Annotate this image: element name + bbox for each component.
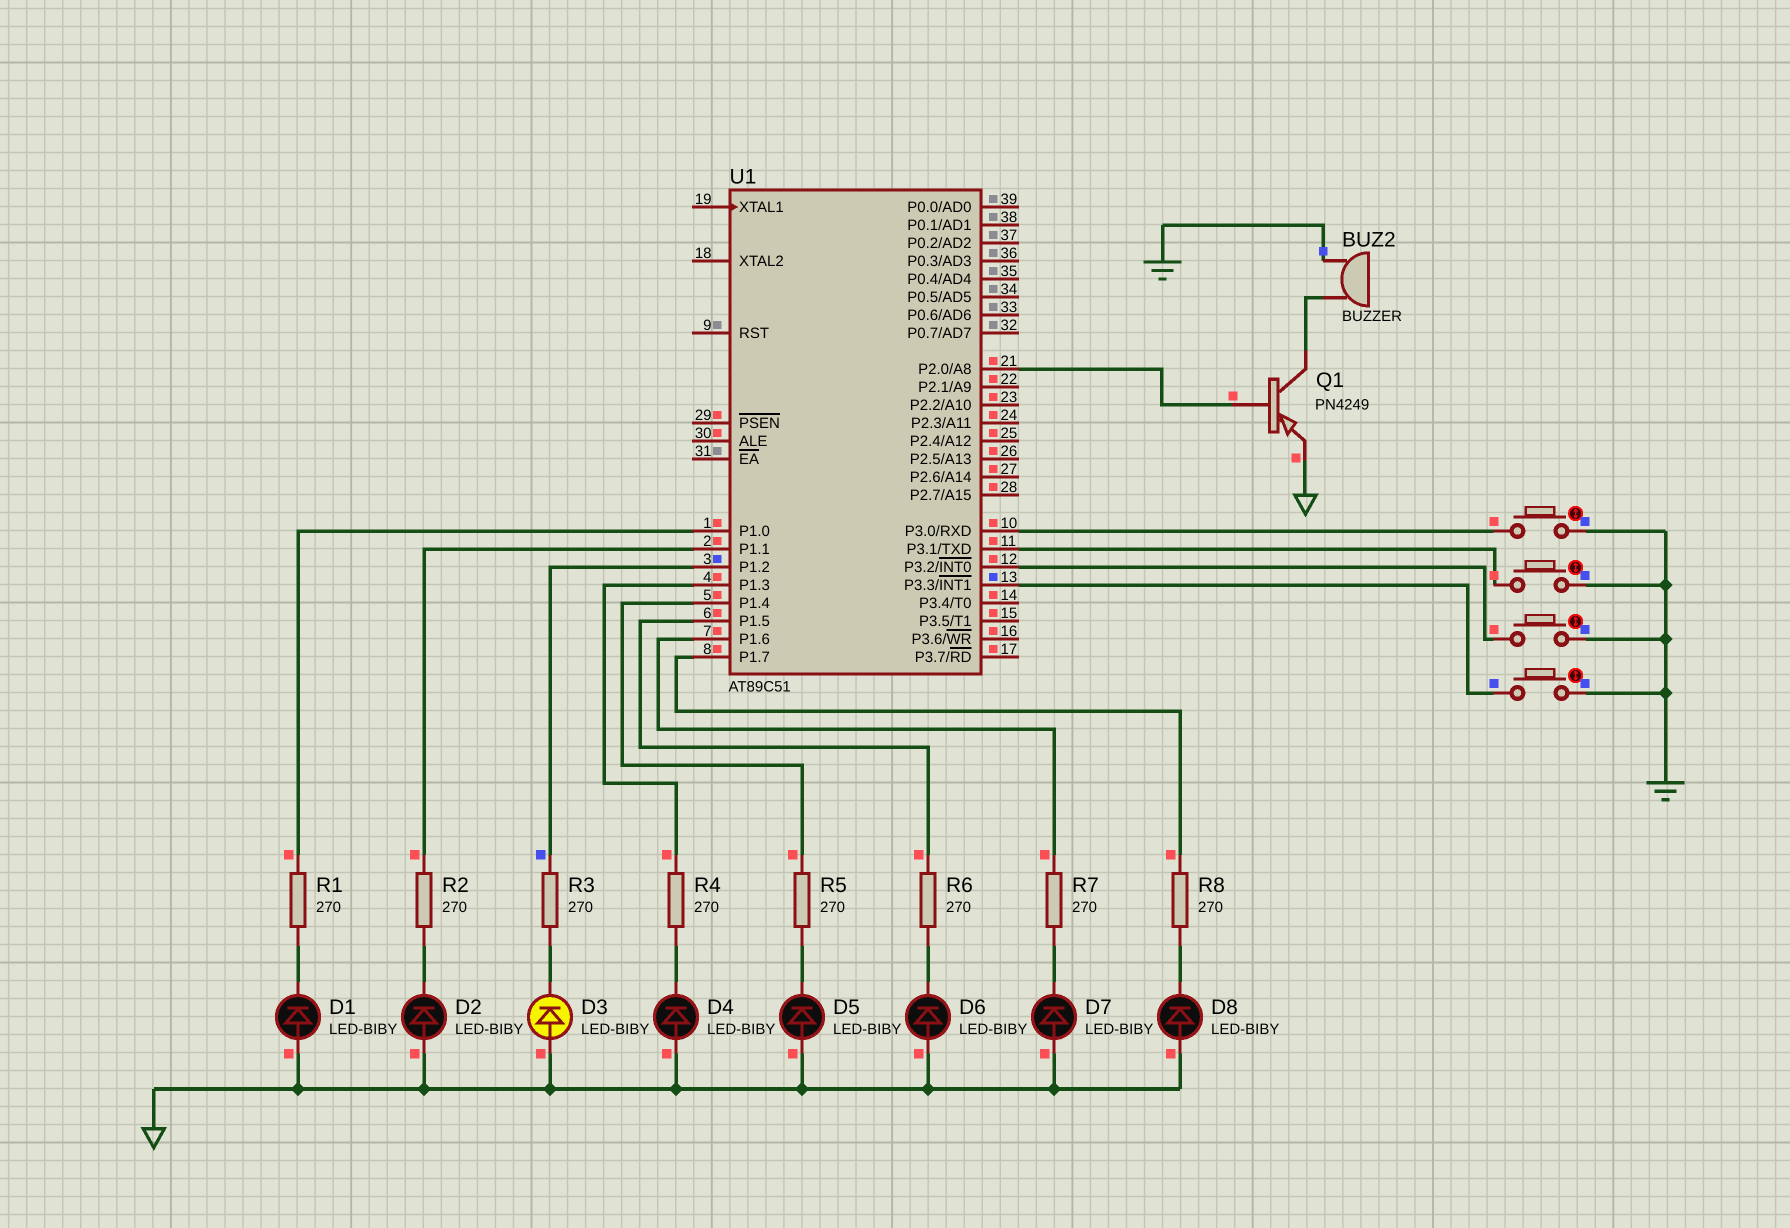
wire D8 to bus bbox=[1178, 1054, 1182, 1090]
wire P3.2 to button 3 bbox=[1019, 567, 1494, 639]
svg-text:LED-BIBY: LED-BIBY bbox=[581, 1021, 649, 1038]
svg-text:R4: R4 bbox=[694, 874, 721, 897]
wire P3.0 to button 1 bbox=[1019, 529, 1494, 533]
U1 pin 25 P2.4/A12 bbox=[910, 425, 1019, 450]
U1 pin 11 P3.1/TXD bbox=[906, 533, 1019, 558]
svg-text:18: 18 bbox=[695, 245, 712, 262]
svg-text:23: 23 bbox=[1001, 389, 1018, 406]
U1 pin 36 P0.3/AD3 bbox=[907, 245, 1019, 270]
push button 2 bbox=[1490, 561, 1590, 591]
wire button 1 to bus bbox=[1586, 529, 1666, 533]
svg-text:P3.6/WR: P3.6/WR bbox=[911, 631, 971, 648]
U1 pin 1 P1.0 bbox=[692, 515, 770, 540]
push button 3 bbox=[1490, 615, 1590, 645]
svg-text:13: 13 bbox=[1001, 569, 1018, 586]
svg-text:P0.0/AD0: P0.0/AD0 bbox=[907, 199, 971, 216]
svg-text:270: 270 bbox=[1072, 899, 1097, 916]
svg-text:33: 33 bbox=[1001, 299, 1018, 316]
ground (bottom-left arrow) bbox=[143, 1089, 164, 1148]
resistor R6 270 bbox=[914, 850, 973, 946]
svg-text:P3.4/T0: P3.4/T0 bbox=[919, 595, 972, 612]
U1 pin 7 P1.6 bbox=[692, 623, 770, 648]
U1 pin 4 P1.3 bbox=[692, 569, 770, 594]
U1 pin 8 P1.7 bbox=[692, 641, 770, 666]
U1 pin 38 P0.1/AD1 bbox=[907, 209, 1019, 234]
svg-text:R1: R1 bbox=[316, 874, 343, 897]
wire P1.3 to R4 bbox=[604, 585, 694, 855]
junction on right bus y=693 bbox=[1658, 686, 1672, 700]
wire D3 to bus bbox=[548, 1054, 552, 1090]
svg-text:3: 3 bbox=[703, 551, 711, 568]
svg-text:270: 270 bbox=[946, 899, 971, 916]
U1 pin 35 P0.4/AD4 bbox=[907, 263, 1019, 288]
svg-text:P2.7/A15: P2.7/A15 bbox=[910, 487, 972, 504]
U1 pin 19 XTAL1 bbox=[692, 191, 784, 216]
LED D7 LED-BIBY bbox=[1033, 982, 1154, 1059]
svg-text:270: 270 bbox=[820, 899, 845, 916]
svg-text:270: 270 bbox=[316, 899, 341, 916]
wire P1.2 to R3 bbox=[550, 567, 694, 855]
svg-text:BUZ2: BUZ2 bbox=[1342, 229, 1396, 252]
svg-text:P1.4: P1.4 bbox=[739, 595, 770, 612]
svg-text:D6: D6 bbox=[959, 996, 986, 1019]
svg-text:2: 2 bbox=[703, 533, 711, 550]
svg-text:P0.6/AD6: P0.6/AD6 bbox=[907, 307, 971, 324]
svg-text:P0.7/AD7: P0.7/AD7 bbox=[907, 325, 971, 342]
U1 pin 13 P3.3/INT1 bbox=[904, 569, 1019, 594]
junction at D2 column on ground bus bbox=[417, 1082, 431, 1096]
svg-text:4: 4 bbox=[703, 569, 711, 586]
svg-text:19: 19 bbox=[695, 191, 712, 208]
U1 pin 15 P3.5/T1 bbox=[919, 605, 1019, 630]
svg-text:10: 10 bbox=[1001, 515, 1018, 532]
svg-text:LED-BIBY: LED-BIBY bbox=[833, 1021, 901, 1038]
svg-text:P1.6: P1.6 bbox=[739, 631, 770, 648]
U1 pin 18 XTAL2 bbox=[692, 245, 784, 270]
svg-text:P3.2/INT0: P3.2/INT0 bbox=[904, 559, 972, 576]
svg-text:1: 1 bbox=[703, 515, 711, 532]
svg-text:LED-BIBY: LED-BIBY bbox=[707, 1021, 775, 1038]
wire D2 to bus bbox=[422, 1054, 426, 1090]
wire Q1 emitter to ground bbox=[1303, 460, 1307, 495]
svg-text:LED-BIBY: LED-BIBY bbox=[959, 1021, 1027, 1038]
svg-text:AT89C51: AT89C51 bbox=[729, 679, 791, 696]
U1 pin 12 P3.2/INT0 bbox=[904, 551, 1019, 576]
U1 pin 29 PSEN bbox=[692, 407, 780, 432]
U1 pin 17 P3.7/RD bbox=[915, 641, 1019, 666]
svg-text:P1.1: P1.1 bbox=[739, 541, 770, 558]
svg-text:P1.2: P1.2 bbox=[739, 559, 770, 576]
wire ground to BUZ2 pin 1 bbox=[1163, 225, 1324, 261]
U1 pin 2 P1.1 bbox=[692, 533, 770, 558]
svg-text:21: 21 bbox=[1001, 353, 1018, 370]
svg-text:29: 29 bbox=[695, 407, 712, 424]
LED D2 LED-BIBY bbox=[403, 982, 524, 1059]
U1 pin 30 ALE bbox=[692, 425, 767, 450]
U1 pin 32 P0.7/AD7 bbox=[907, 317, 1019, 342]
svg-text:39: 39 bbox=[1001, 191, 1018, 208]
svg-text:PN4249: PN4249 bbox=[1315, 397, 1369, 414]
svg-text:P2.4/A12: P2.4/A12 bbox=[910, 433, 972, 450]
svg-text:PSEN: PSEN bbox=[739, 415, 780, 432]
microcontroller U1 AT89C51 body bbox=[729, 166, 982, 696]
svg-text:P1.0: P1.0 bbox=[739, 523, 770, 540]
svg-text:P1.3: P1.3 bbox=[739, 577, 770, 594]
wire button 4 to bus bbox=[1586, 691, 1666, 695]
svg-text:R2: R2 bbox=[442, 874, 469, 897]
svg-text:P0.2/AD2: P0.2/AD2 bbox=[907, 235, 971, 252]
svg-text:P2.0/A8: P2.0/A8 bbox=[918, 361, 971, 378]
svg-text:P0.1/AD1: P0.1/AD1 bbox=[907, 217, 971, 234]
wire button 2 to bus bbox=[1586, 583, 1666, 587]
wire D5 to bus bbox=[800, 1054, 804, 1090]
svg-text:31: 31 bbox=[695, 443, 712, 460]
resistor R8 270 bbox=[1166, 850, 1225, 946]
svg-text:XTAL1: XTAL1 bbox=[739, 199, 784, 216]
svg-text:P1.7: P1.7 bbox=[739, 649, 770, 666]
svg-text:35: 35 bbox=[1001, 263, 1018, 280]
LED D4 LED-BIBY bbox=[655, 982, 776, 1059]
svg-text:U1: U1 bbox=[730, 166, 757, 189]
svg-text:P0.3/AD3: P0.3/AD3 bbox=[907, 253, 971, 270]
U1 pin 14 P3.4/T0 bbox=[919, 587, 1019, 612]
junction on right bus y=639 bbox=[1658, 632, 1672, 646]
U1 pin 28 P2.7/A15 bbox=[910, 479, 1019, 504]
U1 pin 23 P2.2/A10 bbox=[910, 389, 1019, 414]
wire R7 to D7 bbox=[1052, 946, 1056, 982]
svg-text:D4: D4 bbox=[707, 996, 734, 1019]
push button 4 bbox=[1490, 669, 1590, 699]
svg-text:D2: D2 bbox=[455, 996, 482, 1019]
svg-text:24: 24 bbox=[1001, 407, 1018, 424]
svg-text:270: 270 bbox=[1198, 899, 1223, 916]
transistor Q1 PN4249 bbox=[1229, 350, 1370, 462]
svg-text:R5: R5 bbox=[820, 874, 847, 897]
svg-text:P0.4/AD4: P0.4/AD4 bbox=[907, 271, 971, 288]
svg-text:Q1: Q1 bbox=[1316, 369, 1344, 392]
LED D5 LED-BIBY bbox=[781, 982, 902, 1059]
wire P1.7 to R8 bbox=[676, 657, 1180, 855]
LED D3 LED-BIBY bbox=[529, 982, 650, 1059]
svg-text:270: 270 bbox=[568, 899, 593, 916]
svg-text:R7: R7 bbox=[1072, 874, 1099, 897]
U1 pin 6 P1.5 bbox=[692, 605, 770, 630]
wire P1.4 to R5 bbox=[622, 603, 802, 855]
U1 pin 37 P0.2/AD2 bbox=[907, 227, 1019, 252]
wire P3.3 to button 4 bbox=[1019, 585, 1494, 693]
junction at D4 column on ground bus bbox=[669, 1082, 683, 1096]
svg-text:8: 8 bbox=[703, 641, 711, 658]
svg-text:17: 17 bbox=[1001, 641, 1018, 658]
svg-text:32: 32 bbox=[1001, 317, 1018, 334]
wire R2 to D2 bbox=[422, 946, 426, 982]
svg-text:27: 27 bbox=[1001, 461, 1018, 478]
resistor R4 270 bbox=[662, 850, 721, 946]
svg-text:12: 12 bbox=[1001, 551, 1018, 568]
svg-text:5: 5 bbox=[703, 587, 711, 604]
svg-text:P2.6/A14: P2.6/A14 bbox=[910, 469, 972, 486]
wire D1 to bus bbox=[296, 1054, 300, 1090]
wire D6 to bus bbox=[926, 1054, 930, 1090]
U1 pin 24 P2.3/A11 bbox=[911, 407, 1019, 432]
junction on right bus y=585 bbox=[1658, 578, 1672, 592]
svg-text:BUZZER: BUZZER bbox=[1342, 308, 1402, 325]
resistor R5 270 bbox=[788, 850, 847, 946]
resistor R2 270 bbox=[410, 850, 469, 946]
svg-text:P2.3/A11: P2.3/A11 bbox=[911, 415, 972, 432]
wire R4 to D4 bbox=[674, 946, 678, 982]
svg-text:26: 26 bbox=[1001, 443, 1018, 460]
svg-text:LED-BIBY: LED-BIBY bbox=[455, 1021, 523, 1038]
U1 pin 10 P3.0/RXD bbox=[905, 515, 1019, 540]
resistor R3 270 bbox=[536, 850, 595, 946]
svg-text:6: 6 bbox=[703, 605, 711, 622]
svg-text:11: 11 bbox=[1001, 533, 1017, 550]
svg-text:LED-BIBY: LED-BIBY bbox=[329, 1021, 397, 1038]
wire bottom ground bus bbox=[154, 1087, 1180, 1091]
LED D8 LED-BIBY bbox=[1159, 982, 1280, 1059]
wire R8 to D8 bbox=[1178, 946, 1182, 982]
wire BUZ2 pin 2 to Q1 collector bbox=[1306, 298, 1323, 351]
svg-text:EA: EA bbox=[739, 451, 759, 468]
svg-text:9: 9 bbox=[703, 317, 711, 334]
svg-text:R3: R3 bbox=[568, 874, 595, 897]
svg-text:D1: D1 bbox=[329, 996, 356, 1019]
U1 pin 9 RST bbox=[692, 317, 769, 342]
wire R6 to D6 bbox=[926, 946, 930, 982]
svg-text:15: 15 bbox=[1001, 605, 1018, 622]
wire R3 to D3 bbox=[548, 946, 552, 982]
svg-text:XTAL2: XTAL2 bbox=[739, 253, 784, 270]
svg-text:34: 34 bbox=[1001, 281, 1018, 298]
svg-text:16: 16 bbox=[1001, 623, 1018, 640]
wire D7 to bus bbox=[1052, 1054, 1056, 1090]
svg-text:P3.5/T1: P3.5/T1 bbox=[919, 613, 972, 630]
svg-text:36: 36 bbox=[1001, 245, 1018, 262]
svg-text:P0.5/AD5: P0.5/AD5 bbox=[907, 289, 971, 306]
svg-text:RST: RST bbox=[739, 325, 769, 342]
U1 pin 34 P0.5/AD5 bbox=[907, 281, 1019, 306]
svg-text:D7: D7 bbox=[1085, 996, 1112, 1019]
svg-text:P2.2/A10: P2.2/A10 bbox=[910, 397, 972, 414]
wire R1 to D1 bbox=[296, 946, 300, 982]
svg-text:22: 22 bbox=[1001, 371, 1018, 388]
U1 pin 16 P3.6/WR bbox=[911, 623, 1019, 648]
svg-text:P3.3/INT1: P3.3/INT1 bbox=[904, 577, 972, 594]
svg-text:28: 28 bbox=[1001, 479, 1018, 496]
U1 pin 39 P0.0/AD0 bbox=[907, 191, 1019, 216]
svg-text:37: 37 bbox=[1001, 227, 1018, 244]
svg-text:25: 25 bbox=[1001, 425, 1018, 442]
wire P1.1 to R2 bbox=[424, 549, 694, 855]
wire P1.6 to R7 bbox=[658, 639, 1054, 855]
wire P1.5 to R6 bbox=[640, 621, 928, 855]
wire button 3 to bus bbox=[1586, 637, 1666, 641]
ground (Q1 emitter arrow) bbox=[1295, 495, 1316, 514]
svg-text:D3: D3 bbox=[581, 996, 608, 1019]
U1 pin 3 P1.2 bbox=[692, 551, 770, 576]
svg-text:30: 30 bbox=[695, 425, 712, 442]
U1 pin 22 P2.1/A9 bbox=[918, 371, 1019, 396]
svg-text:P2.1/A9: P2.1/A9 bbox=[918, 379, 971, 396]
buzzer BUZ2 bbox=[1319, 229, 1402, 326]
svg-text:D5: D5 bbox=[833, 996, 860, 1019]
svg-text:LED-BIBY: LED-BIBY bbox=[1085, 1021, 1153, 1038]
ground (right button bus) bbox=[1647, 783, 1685, 800]
wire right ground bus bbox=[1664, 531, 1668, 783]
svg-text:P3.1/TXD: P3.1/TXD bbox=[906, 541, 971, 558]
junction at D3 column on ground bus bbox=[543, 1082, 557, 1096]
resistor R1 270 bbox=[284, 850, 343, 946]
svg-text:P3.0/RXD: P3.0/RXD bbox=[905, 523, 972, 540]
LED D1 LED-BIBY bbox=[277, 982, 398, 1059]
wire P2.0 to Q1 base bbox=[1019, 369, 1232, 405]
U1 pin 21 P2.0/A8 bbox=[918, 353, 1019, 378]
junction at D5 column on ground bus bbox=[795, 1082, 809, 1096]
svg-text:R8: R8 bbox=[1198, 874, 1225, 897]
svg-text:270: 270 bbox=[694, 899, 719, 916]
wire R5 to D5 bbox=[800, 946, 804, 982]
svg-text:14: 14 bbox=[1001, 587, 1018, 604]
wire D4 to bus bbox=[674, 1054, 678, 1090]
svg-text:7: 7 bbox=[703, 623, 711, 640]
LED D6 LED-BIBY bbox=[907, 982, 1028, 1059]
wire P3.1 to button 2 bbox=[1019, 549, 1495, 585]
junction at D1 column on ground bus bbox=[291, 1082, 305, 1096]
svg-text:38: 38 bbox=[1001, 209, 1018, 226]
U1 pin 27 P2.6/A14 bbox=[910, 461, 1019, 486]
junction at D6 column on ground bus bbox=[921, 1082, 935, 1096]
svg-text:ALE: ALE bbox=[739, 433, 767, 450]
svg-text:R6: R6 bbox=[946, 874, 973, 897]
svg-text:P3.7/RD: P3.7/RD bbox=[915, 649, 972, 666]
U1 pin 26 P2.5/A13 bbox=[910, 443, 1019, 468]
svg-text:270: 270 bbox=[442, 899, 467, 916]
ground (buzzer supply rail) bbox=[1144, 225, 1182, 279]
svg-text:LED-BIBY: LED-BIBY bbox=[1211, 1021, 1279, 1038]
svg-text:P2.5/A13: P2.5/A13 bbox=[910, 451, 972, 468]
wire P1.0 to R1 bbox=[298, 531, 694, 855]
svg-text:D8: D8 bbox=[1211, 996, 1238, 1019]
push button 1 bbox=[1490, 507, 1590, 537]
resistor R7 270 bbox=[1040, 850, 1099, 946]
U1 pin 5 P1.4 bbox=[692, 587, 770, 612]
svg-text:P1.5: P1.5 bbox=[739, 613, 770, 630]
U1 pin 33 P0.6/AD6 bbox=[907, 299, 1019, 324]
U1 pin 31 EA bbox=[692, 443, 759, 468]
junction at D7 column on ground bus bbox=[1047, 1082, 1061, 1096]
